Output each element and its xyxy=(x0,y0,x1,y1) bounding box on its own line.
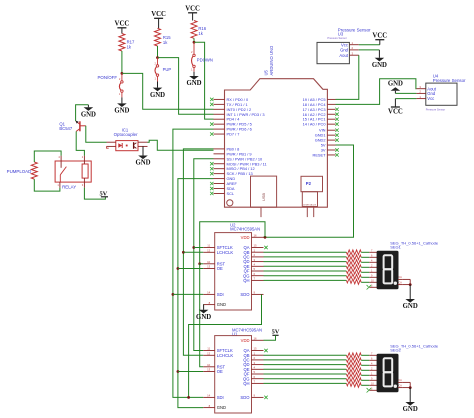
connector P2 xyxy=(301,176,323,217)
svg-text:5V: 5V xyxy=(272,329,280,336)
svg-text:VCC: VCC xyxy=(151,11,166,18)
node 5V rail at U2 RST xyxy=(198,262,201,265)
resistor segment f xyxy=(346,274,361,280)
wire SEG2 cathode to GND xyxy=(402,382,410,387)
svg-text:VCC: VCC xyxy=(185,6,200,13)
wire SEG1 segment b xyxy=(264,256,347,258)
svg-text:LCHCLK: LCHCLK xyxy=(217,353,234,358)
wire U2 SDI pin xyxy=(173,293,203,295)
svg-text:GND: GND xyxy=(186,80,201,87)
resistor R16 1k xyxy=(191,21,207,39)
svg-text:SDI: SDI xyxy=(217,292,224,297)
svg-text:CA: CA xyxy=(399,276,403,279)
svg-text:13: 13 xyxy=(207,368,211,372)
wire SEG2 segment a xyxy=(264,354,347,356)
wire pumpload top to relay contact xyxy=(34,151,61,162)
resistor segment d xyxy=(346,367,361,372)
svg-text:RELAY: RELAY xyxy=(62,184,76,189)
no-connect marks left pins xyxy=(210,98,213,195)
svg-text:SCL: SCL xyxy=(227,191,235,196)
wire U3 Aout to Arduino A5 xyxy=(336,55,359,99)
svg-text:GND: GND xyxy=(81,112,96,119)
svg-text:VCC: VCC xyxy=(372,33,387,40)
resistor segment a xyxy=(346,353,361,358)
wire SEG2 segment g xyxy=(264,382,347,384)
label SEG1 xyxy=(390,241,439,250)
svg-text:GND: GND xyxy=(150,92,165,99)
svg-text:11: 11 xyxy=(207,347,210,351)
resistor PUMPLOAD xyxy=(7,162,38,179)
wire U3 Vcc to VCC xyxy=(359,44,380,46)
svg-text:MC74HC595AN: MC74HC595AN xyxy=(230,227,260,232)
wire SEG2 segment b xyxy=(264,359,347,361)
wire SEG2 segment c xyxy=(264,364,347,366)
svg-text:RESET: RESET xyxy=(313,152,327,157)
node cascade at U1 SDI xyxy=(187,396,190,399)
power flag VCC (U4, below) xyxy=(388,99,403,116)
svg-text:Vcc: Vcc xyxy=(427,96,434,101)
no-connect U2 QA xyxy=(264,246,267,249)
wire Arduino PB0 rail to LCHCLK pins xyxy=(183,149,213,355)
wire Q1 base to optocoupler xyxy=(86,126,107,142)
no-connect SEG1 DP xyxy=(367,285,372,289)
wire SEG1 segment a xyxy=(264,251,347,253)
svg-text:BC547: BC547 xyxy=(59,126,72,131)
power flag VCC (R17 column) xyxy=(115,21,130,34)
wire 5V wrap-around to RST rail xyxy=(200,222,265,264)
push button PDOWN xyxy=(191,42,213,72)
resistor segment e xyxy=(346,372,361,378)
wire U4 Gnd to GND xyxy=(395,92,416,94)
wire U4 Vcc to VCC xyxy=(395,98,416,100)
power flag 5V (U1 VDD) xyxy=(272,329,280,336)
ground GND (U3) xyxy=(372,50,387,69)
resistor segment e xyxy=(346,269,361,275)
node PB2 rail at U2 SFTCLK xyxy=(192,246,195,249)
svg-text:14: 14 xyxy=(207,394,211,398)
wire SEG1 segment f xyxy=(264,275,347,277)
wire SEG2 segment d xyxy=(264,368,347,370)
resistor segment b xyxy=(346,255,361,260)
op-amp U5 ARDUINO UNO outline xyxy=(225,45,328,207)
svg-text:CA: CA xyxy=(399,384,403,387)
svg-text:QH: QH xyxy=(243,381,249,386)
power flag VCC (U3) xyxy=(372,33,387,45)
svg-text:11: 11 xyxy=(207,244,210,248)
wire SEG1 cathode to GND xyxy=(402,279,410,284)
resistor R15 1k xyxy=(155,28,172,46)
svg-text:GND: GND xyxy=(388,81,403,88)
resistor segment c xyxy=(346,259,361,264)
wire junction to Arduino PD4 xyxy=(194,42,214,119)
svg-text:10: 10 xyxy=(207,363,211,367)
op-amp U1 MC74HC595AN xyxy=(203,327,263,413)
node PB0 rail at U2 LCHCLK xyxy=(182,251,185,254)
wire RST rail U2 to U1 xyxy=(200,264,204,367)
svg-text:PON/OFF: PON/OFF xyxy=(97,75,117,80)
wire R16 to junction xyxy=(193,38,195,42)
svg-text:ATMEGA328: ATMEGA328 xyxy=(303,203,317,206)
svg-text:SDO: SDO xyxy=(240,395,250,400)
svg-text:ARDUINO UNO: ARDUINO UNO xyxy=(269,45,274,76)
svg-text:10: 10 xyxy=(207,260,211,264)
Arduino left pins xyxy=(214,97,267,196)
svg-text:PUP: PUP xyxy=(163,67,172,72)
svg-text:VDD: VDD xyxy=(241,235,250,240)
resistor segment b xyxy=(346,358,361,363)
svg-text:OE: OE xyxy=(217,369,223,374)
relay RELAY xyxy=(55,155,91,190)
svg-text:Pressure Sensor: Pressure Sensor xyxy=(426,108,445,112)
svg-text:GND: GND xyxy=(217,302,226,307)
svg-text:14 / A0 / PC0: 14 / A0 / PC0 xyxy=(303,122,327,127)
wire Arduino 5V to U2 VDD xyxy=(264,145,354,237)
wire pumpload bottom to relay contact xyxy=(34,179,60,191)
svg-text:CA: CA xyxy=(399,281,403,284)
svg-text:16: 16 xyxy=(254,234,258,238)
resistor R17 1k xyxy=(119,34,135,52)
ground GND (PUP) xyxy=(150,82,165,99)
svg-text:12: 12 xyxy=(207,352,211,356)
node junction R16/PDOWN xyxy=(193,41,196,44)
label SEG2 xyxy=(390,344,439,353)
wire Arduino PB2 rail to SFTCLK pins xyxy=(194,159,214,351)
power flag VCC (R16 column) xyxy=(185,6,200,21)
svg-text:VCC: VCC xyxy=(388,109,403,116)
svg-text:GND: GND xyxy=(403,303,418,310)
svg-text:VCC: VCC xyxy=(115,21,130,28)
no-connect U1 QA xyxy=(264,349,267,352)
svg-text:GND: GND xyxy=(217,405,226,410)
svg-text:GND: GND xyxy=(196,314,211,321)
wire U2 SDO cascade to U1 SDI xyxy=(189,294,262,397)
svg-text:PD7 / 7: PD7 / 7 xyxy=(227,132,240,137)
svg-text:LCHCLK: LCHCLK xyxy=(217,250,234,255)
svg-text:16: 16 xyxy=(254,337,258,341)
svg-text:14: 14 xyxy=(207,291,211,295)
svg-text:GND: GND xyxy=(403,406,418,413)
ground GND (SEG1) xyxy=(403,285,418,311)
resistor segment a xyxy=(346,250,361,255)
svg-text:Pressure Sensor: Pressure Sensor xyxy=(327,36,346,40)
wire SEG1 segment c xyxy=(264,261,347,263)
wire U2 LCHCLK pin xyxy=(183,251,203,253)
svg-text:OE: OE xyxy=(217,266,223,271)
wire Q1 collector to relay coil xyxy=(76,131,84,155)
7-seg display SEG1 xyxy=(369,250,402,289)
svg-text:PUMPLOAD: PUMPLOAD xyxy=(7,169,32,174)
ground GND (optocoupler pin) xyxy=(135,146,150,166)
node GND rail at U1 OE xyxy=(177,370,180,373)
svg-text:SEG2: SEG2 xyxy=(390,348,401,353)
wire Arduino GND rail to OE pins and U1 GND xyxy=(178,179,214,408)
node SEG2 cathode xyxy=(409,386,412,389)
svg-text:13: 13 xyxy=(207,265,211,269)
wire U3 Gnd to GND xyxy=(359,49,380,51)
op-amp IC1 Optocoupler xyxy=(107,127,148,150)
ground GND (U2 pin 8) xyxy=(196,305,211,321)
wire junction to Arduino INT1/PD3 xyxy=(158,58,214,115)
wire SEG1 segment e xyxy=(264,270,347,272)
svg-text:SEG1: SEG1 xyxy=(390,244,401,249)
Arduino right pins xyxy=(303,97,336,158)
resistor segment g xyxy=(346,278,361,284)
ground GND (Q1 emitter) xyxy=(81,105,96,119)
wire U1 VDD to 5V flag xyxy=(264,335,276,340)
wire optocoupler output to Arduino PB1 xyxy=(148,140,214,150)
wire Q1 emitter to GND xyxy=(76,105,89,121)
resistor segment d xyxy=(346,264,361,269)
ground GND (PON/OFF) xyxy=(114,97,129,114)
push button PUP xyxy=(154,58,171,82)
svg-text:15: 15 xyxy=(254,244,258,248)
svg-text:USB: USB xyxy=(261,193,266,202)
svg-text:P2: P2 xyxy=(306,181,312,186)
wire 5V rail into U2 RST xyxy=(200,263,204,265)
wire junction to Arduino INT0/PD2 xyxy=(122,73,214,109)
7-seg display SEG2 xyxy=(369,353,402,392)
wire relay coil to 5V xyxy=(84,188,105,200)
svg-text:Aout: Aout xyxy=(339,53,348,58)
wire Arduino PD6 rail to SDI pins xyxy=(173,129,214,397)
no-connect SEG2 DP xyxy=(367,388,372,392)
svg-text:CA: CA xyxy=(399,379,403,382)
svg-text:SDO: SDO xyxy=(240,292,250,297)
resistor segment c xyxy=(346,362,361,367)
wire SEG1 segment d xyxy=(264,265,347,267)
power flag 5V (relay) xyxy=(99,190,108,197)
no-connect marks right pins xyxy=(335,108,338,157)
node junction R15/PUP xyxy=(156,56,159,59)
node PD6 rail at U2 SDI xyxy=(172,293,175,296)
wire SEG2 segment f xyxy=(264,378,347,380)
node 5V at U2 VDD xyxy=(264,236,267,239)
op-amp U3 Pressure Sensor xyxy=(317,28,371,64)
node SEG1 cathode xyxy=(409,283,412,286)
wire U2 SFTCLK pin xyxy=(194,247,203,249)
push button PON/OFF xyxy=(97,73,123,97)
svg-text:U5: U5 xyxy=(263,69,268,75)
svg-text:PDOWN: PDOWN xyxy=(197,58,213,63)
wire R15 to junction xyxy=(157,46,159,58)
svg-text:Pressure Sensor: Pressure Sensor xyxy=(433,78,466,83)
svg-text:Gnd: Gnd xyxy=(340,48,349,53)
svg-text:15: 15 xyxy=(254,347,258,351)
svg-text:U3: U3 xyxy=(338,31,344,36)
ground GND (SEG2) xyxy=(403,388,418,414)
resistor segment f xyxy=(346,377,361,383)
ground GND (U4, pointing up) xyxy=(388,81,403,94)
node junction R17/PON/OFF xyxy=(121,72,124,75)
svg-text:GND: GND xyxy=(135,160,150,167)
ground GND (PDOWN) xyxy=(186,72,201,87)
svg-text:SDI: SDI xyxy=(217,395,224,400)
transistor Q1 BC547 xyxy=(59,121,85,132)
svg-text:GND: GND xyxy=(372,62,387,69)
wire SEG1 segment g xyxy=(264,279,347,281)
svg-text:VDD: VDD xyxy=(241,338,250,343)
svg-text:Optocoupler: Optocoupler xyxy=(114,132,138,137)
power flag VCC (R15 column) xyxy=(151,11,166,28)
node GND rail at U2 OE xyxy=(177,267,180,270)
wire SEG2 segment e xyxy=(264,373,347,375)
svg-text:12: 12 xyxy=(207,249,211,253)
wire R17 to junction xyxy=(121,51,123,73)
svg-text:QH: QH xyxy=(243,278,249,283)
no-connect U1 SDO xyxy=(264,396,267,399)
op-amp U2 MC74HC595AN xyxy=(203,222,263,310)
mounting hole circle xyxy=(227,200,233,206)
wire U4 Aout to Arduino A4 xyxy=(336,79,417,105)
svg-text:GND: GND xyxy=(114,108,129,115)
resistor segment g xyxy=(346,381,361,387)
USB connector xyxy=(251,176,277,217)
op-amp U4 Pressure Sensor xyxy=(416,73,466,111)
